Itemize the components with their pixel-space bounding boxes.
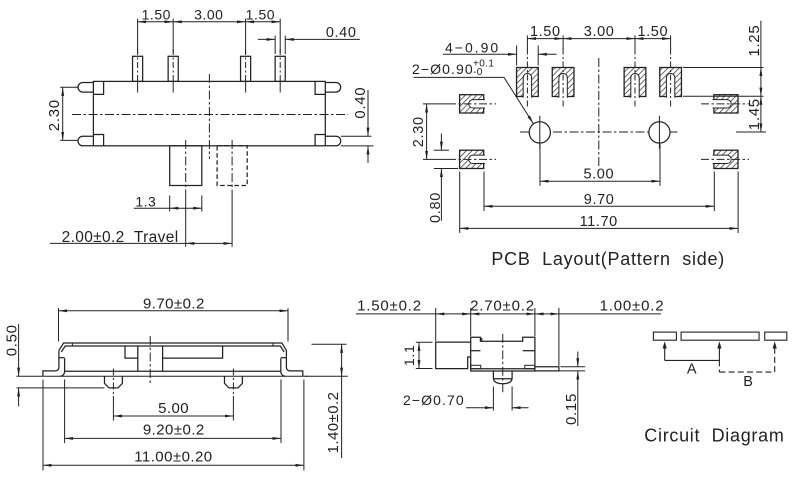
lower-left side pad slot — [469, 155, 485, 163]
side view bottom plate line — [471, 368, 535, 370]
upper-left side pad slot — [469, 100, 485, 108]
dimension line 1.25 — [760, 21, 762, 68]
cover tab bottom left — [471, 350, 481, 352]
pin 2 (top view) — [168, 56, 178, 81]
side view cover tab seam — [481, 338, 483, 342]
pcb view horizontal centerline — [520, 131, 680, 133]
lead extension lines 0.15 — [561, 366, 586, 368]
upper-right side pad (hatched) — [714, 95, 738, 113]
svg-text:9.70±0.2: 9.70±0.2 — [143, 296, 205, 313]
knob stem (position 2, hidden) — [217, 146, 247, 186]
pin 1 (top view) — [133, 56, 143, 81]
extension lines knob height 1.1 — [416, 341, 433, 343]
svg-text:0.50: 0.50 — [4, 324, 21, 356]
leader line to left hole — [414, 76, 505, 78]
extension lines width 9.70 — [58, 308, 60, 342]
dimension line 1.1 — [418, 342, 420, 368]
knob stem centerline — [185, 140, 187, 196]
dimension 2-Ø0.70 arrows — [466, 407, 493, 409]
lower-left side pad centerline — [448, 158, 496, 160]
pin 4 centerline — [279, 49, 281, 81]
svg-text:1.1: 1.1 — [401, 345, 417, 367]
svg-text:1.50: 1.50 — [246, 6, 275, 22]
svg-text:PCB Layout(Pattern side): PCB Layout(Pattern side) — [491, 249, 725, 269]
dimension pin width 0.40 arrows — [258, 38, 275, 40]
svg-text:3.00: 3.00 — [194, 6, 223, 22]
lower-right side pad (hatched) — [714, 150, 738, 168]
circuit contact bar middle (common) — [681, 332, 759, 340]
body bottom edge — [65, 370, 281, 372]
lower-right side pad centerline — [701, 158, 749, 160]
wire B from middle node (dashed) — [718, 360, 720, 372]
wire B horizontal (dashed) — [719, 371, 774, 373]
knob (side view) — [436, 342, 471, 369]
pin 1 centerline — [137, 49, 139, 81]
solder pad 1 (hatched) — [517, 68, 539, 97]
pin 4 (top view) — [275, 56, 285, 81]
top-left ear — [78, 83, 93, 93]
front view body left side — [58, 350, 60, 357]
extension lines 9.70 — [483, 172, 485, 212]
svg-text:1.50: 1.50 — [530, 24, 561, 40]
svg-text:1.3: 1.3 — [135, 193, 156, 209]
upper-right side pad centerline — [701, 103, 749, 105]
cover plate seam nick left — [71, 343, 73, 346]
dimension line pin pitch 1.50 / 3.00 / 1.50 — [138, 21, 174, 23]
solder pad 3 centerline — [634, 49, 636, 108]
solder pad 1 slot — [523, 73, 531, 97]
svg-text:1.00±0.2: 1.00±0.2 — [600, 297, 665, 314]
cover plate seam nick right — [272, 343, 274, 346]
dimension line 9.20±0.2 — [65, 437, 281, 439]
svg-text:5.00: 5.00 — [158, 400, 189, 417]
solder pad 2 (hatched) — [552, 68, 574, 97]
terminal right (side view) — [525, 365, 535, 368]
svg-text:4−0.90: 4−0.90 — [445, 39, 500, 55]
svg-text:2−Ø0.90: 2−Ø0.90 — [412, 61, 474, 77]
extension lines 11.00 — [42, 380, 44, 471]
svg-text:1.50: 1.50 — [142, 6, 171, 22]
svg-text:3.00: 3.00 — [584, 24, 615, 40]
top view horizontal centerline — [72, 114, 348, 116]
lower-left side pad (hatched) — [460, 150, 484, 168]
svg-text:0.40: 0.40 — [326, 25, 357, 41]
terminal lead right — [535, 367, 559, 371]
wire A from left contact — [664, 348, 666, 361]
svg-text:1.25: 1.25 — [746, 25, 763, 57]
top-right corner notch — [315, 81, 325, 94]
bottom-right ear — [325, 136, 340, 146]
extension lines 11.70 — [459, 172, 461, 234]
mounting hole left crosshair — [539, 116, 541, 149]
solder pad 3 (hatched) — [624, 68, 646, 97]
top view switch body — [93, 81, 325, 145]
locating boss left — [105, 376, 123, 388]
extension lines pin width 0.40 — [274, 36, 276, 55]
svg-text:0.80: 0.80 — [428, 192, 444, 223]
svg-text:2.70±0.2: 2.70±0.2 — [470, 297, 535, 314]
extension lines boss diameter — [492, 387, 494, 411]
dimension line 9.70 — [484, 205, 714, 207]
extension lines height 1.40 — [312, 343, 347, 345]
bottom-right corner notch — [315, 135, 325, 146]
svg-text:B: B — [743, 374, 753, 390]
boss right centerline — [232, 369, 234, 397]
svg-text:1.50±0.2: 1.50±0.2 — [357, 297, 422, 314]
extension lines stem width 1.3 — [169, 196, 171, 212]
svg-text:1.50: 1.50 — [637, 24, 668, 40]
side view vertical centerline — [502, 334, 504, 394]
solder pad 2 centerline — [562, 49, 564, 108]
solder pad 4 slot — [666, 73, 674, 97]
knob stem (position 1) — [170, 146, 202, 186]
top view vertical centerline — [208, 74, 210, 159]
dimension line 1.3 — [134, 207, 170, 209]
extension lines travel 2.00 — [185, 196, 187, 247]
extension lines body height 2.30 — [60, 86, 77, 88]
slider recess — [125, 346, 223, 358]
svg-text:9.20±0.2: 9.20±0.2 — [143, 422, 205, 439]
solder pad 3 slot — [631, 73, 639, 97]
dimension side pad height 0.80 arrows — [440, 134, 442, 151]
pin 2 centerline — [172, 49, 174, 81]
dimension line 2.30 — [62, 87, 64, 140]
svg-text:9.70: 9.70 — [584, 192, 615, 208]
svg-text:1.40±0.2: 1.40±0.2 — [325, 392, 342, 454]
svg-text:0.40: 0.40 — [352, 87, 369, 119]
dimension line 2.30 — [426, 104, 428, 159]
extension lines row spacing 2.30 — [423, 103, 448, 105]
dimension line 9.70±0.2 — [59, 310, 289, 312]
svg-text:11.70: 11.70 — [580, 214, 618, 230]
right gull-wing leg — [286, 358, 302, 377]
pin 3 centerline — [245, 49, 247, 81]
cover tab bottom right — [523, 350, 535, 352]
side view body — [471, 337, 535, 371]
knob stem 2 centerline — [231, 140, 233, 196]
top-right ear — [325, 83, 340, 93]
svg-text:2−Ø0.70: 2−Ø0.70 — [403, 392, 465, 408]
dimension boss protrusion 0.50 arrows — [18, 324, 20, 376]
upper-left side pad (hatched) — [460, 95, 484, 113]
svg-text:-0: -0 — [473, 67, 483, 78]
solder pad 4 (hatched) — [660, 68, 682, 97]
boss bottom extension line — [17, 387, 105, 389]
mounting hole right — [649, 122, 670, 143]
front view body right side — [285, 350, 287, 357]
svg-text:2.30: 2.30 — [46, 99, 63, 131]
circuit contact bar right — [765, 332, 787, 340]
extension lines top dims — [435, 308, 437, 341]
svg-text:Circuit Diagram: Circuit Diagram — [644, 425, 784, 445]
locating boss right — [225, 376, 243, 388]
solder pad 4 centerline — [670, 49, 672, 108]
pcb view vertical centerline — [598, 58, 600, 168]
knob centerline — [149, 336, 151, 384]
terminal left (side view) — [471, 365, 481, 368]
center boss (side view) — [493, 371, 512, 384]
solder pad 1 centerline — [526, 49, 528, 108]
circuit contact bar left — [653, 332, 676, 340]
extension lines side pad 0.80 — [434, 149, 449, 151]
svg-text:1.45: 1.45 — [746, 98, 763, 130]
pcb pad pitch dimension line 1.50 / 3.00 / 1.50 — [526, 35, 528, 49]
dimension line 1.50±0.2 / 2.70±0.2 / 1.00±0.2 — [356, 313, 436, 315]
svg-text:A: A — [687, 361, 697, 377]
svg-text:5.00: 5.00 — [583, 167, 614, 183]
svg-text:11.00±0.20: 11.00±0.20 — [134, 449, 212, 466]
extension lines 9.20 — [64, 380, 66, 444]
wire A horizontal — [665, 359, 720, 361]
dimension line 5.00 — [540, 180, 660, 182]
pin 3 (top view) — [241, 56, 251, 81]
mounting hole right crosshair — [658, 116, 660, 149]
svg-text:0.15: 0.15 — [563, 393, 580, 425]
front view cover plate — [59, 343, 287, 350]
knob (front view) — [138, 346, 163, 371]
extension lines hole pitch 5.00 — [539, 144, 541, 186]
mounting hole left — [529, 122, 550, 143]
bottom-left ear — [78, 136, 93, 146]
wire A to middle contact — [718, 348, 720, 361]
upper-left side pad centerline — [448, 103, 496, 105]
dimension line 1.40±0.2 — [341, 344, 343, 376]
dimension line 5.00 — [113, 415, 233, 417]
extension lines pad height 1.25 and 1.45 — [683, 67, 764, 69]
dimension ear height 0.40 arrows — [367, 90, 369, 136]
svg-text:2.30: 2.30 — [411, 116, 427, 147]
bottom-left corner notch — [93, 135, 103, 146]
wire B to right contact (dashed) — [774, 348, 776, 373]
extension lines boss pitch 5.00 — [112, 396, 114, 421]
dimension line 11.70 — [460, 227, 738, 229]
solder pad 2 slot — [559, 73, 567, 97]
lower-right side pad slot — [713, 155, 732, 163]
svg-text:2.00±0.2 Travel: 2.00±0.2 Travel — [62, 229, 179, 246]
left gull-wing leg — [43, 358, 59, 377]
extension lines pin pitch — [137, 19, 139, 53]
seating plane line — [17, 375, 309, 377]
extension lines ear height 0.40 — [341, 135, 372, 137]
dimension line 1.45 — [760, 96, 762, 132]
boss left centerline — [112, 369, 114, 397]
top-left corner notch — [93, 81, 103, 94]
dimension line travel — [50, 242, 186, 244]
dimension lead thickness 0.15 arrows — [577, 352, 579, 367]
upper-right side pad slot — [713, 100, 732, 108]
dimension line 11.00±0.20 — [43, 464, 304, 466]
